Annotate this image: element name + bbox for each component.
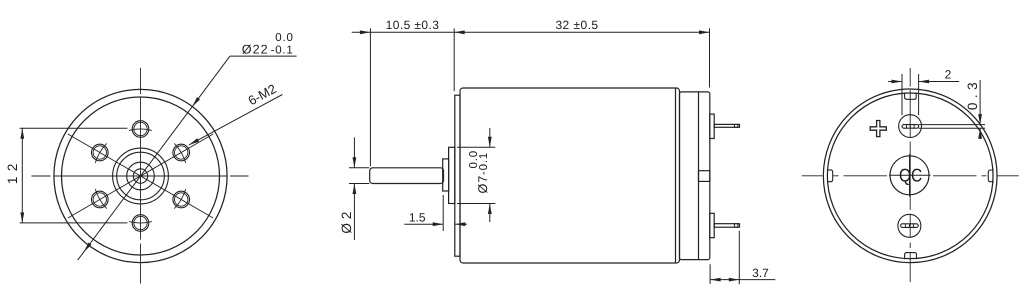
svg-text:3.7: 3.7 <box>752 266 769 280</box>
svg-text:0.0: 0.0 <box>468 150 480 168</box>
svg-text:-0.1: -0.1 <box>271 45 294 57</box>
svg-text:0.0: 0.0 <box>275 32 293 44</box>
svg-text:0.3: 0.3 <box>965 78 980 110</box>
svg-text:12: 12 <box>5 158 20 184</box>
svg-text:Ø7: Ø7 <box>476 175 490 194</box>
svg-text:1.5: 1.5 <box>409 211 426 225</box>
svg-text:QC: QC <box>899 164 922 185</box>
svg-text:32 ±0.5: 32 ±0.5 <box>555 18 598 32</box>
svg-text:Ø22: Ø22 <box>242 43 269 57</box>
svg-text:2: 2 <box>945 68 952 82</box>
svg-text:Ø2: Ø2 <box>339 208 354 234</box>
svg-text:10.5 ±0.3: 10.5 ±0.3 <box>386 18 440 32</box>
